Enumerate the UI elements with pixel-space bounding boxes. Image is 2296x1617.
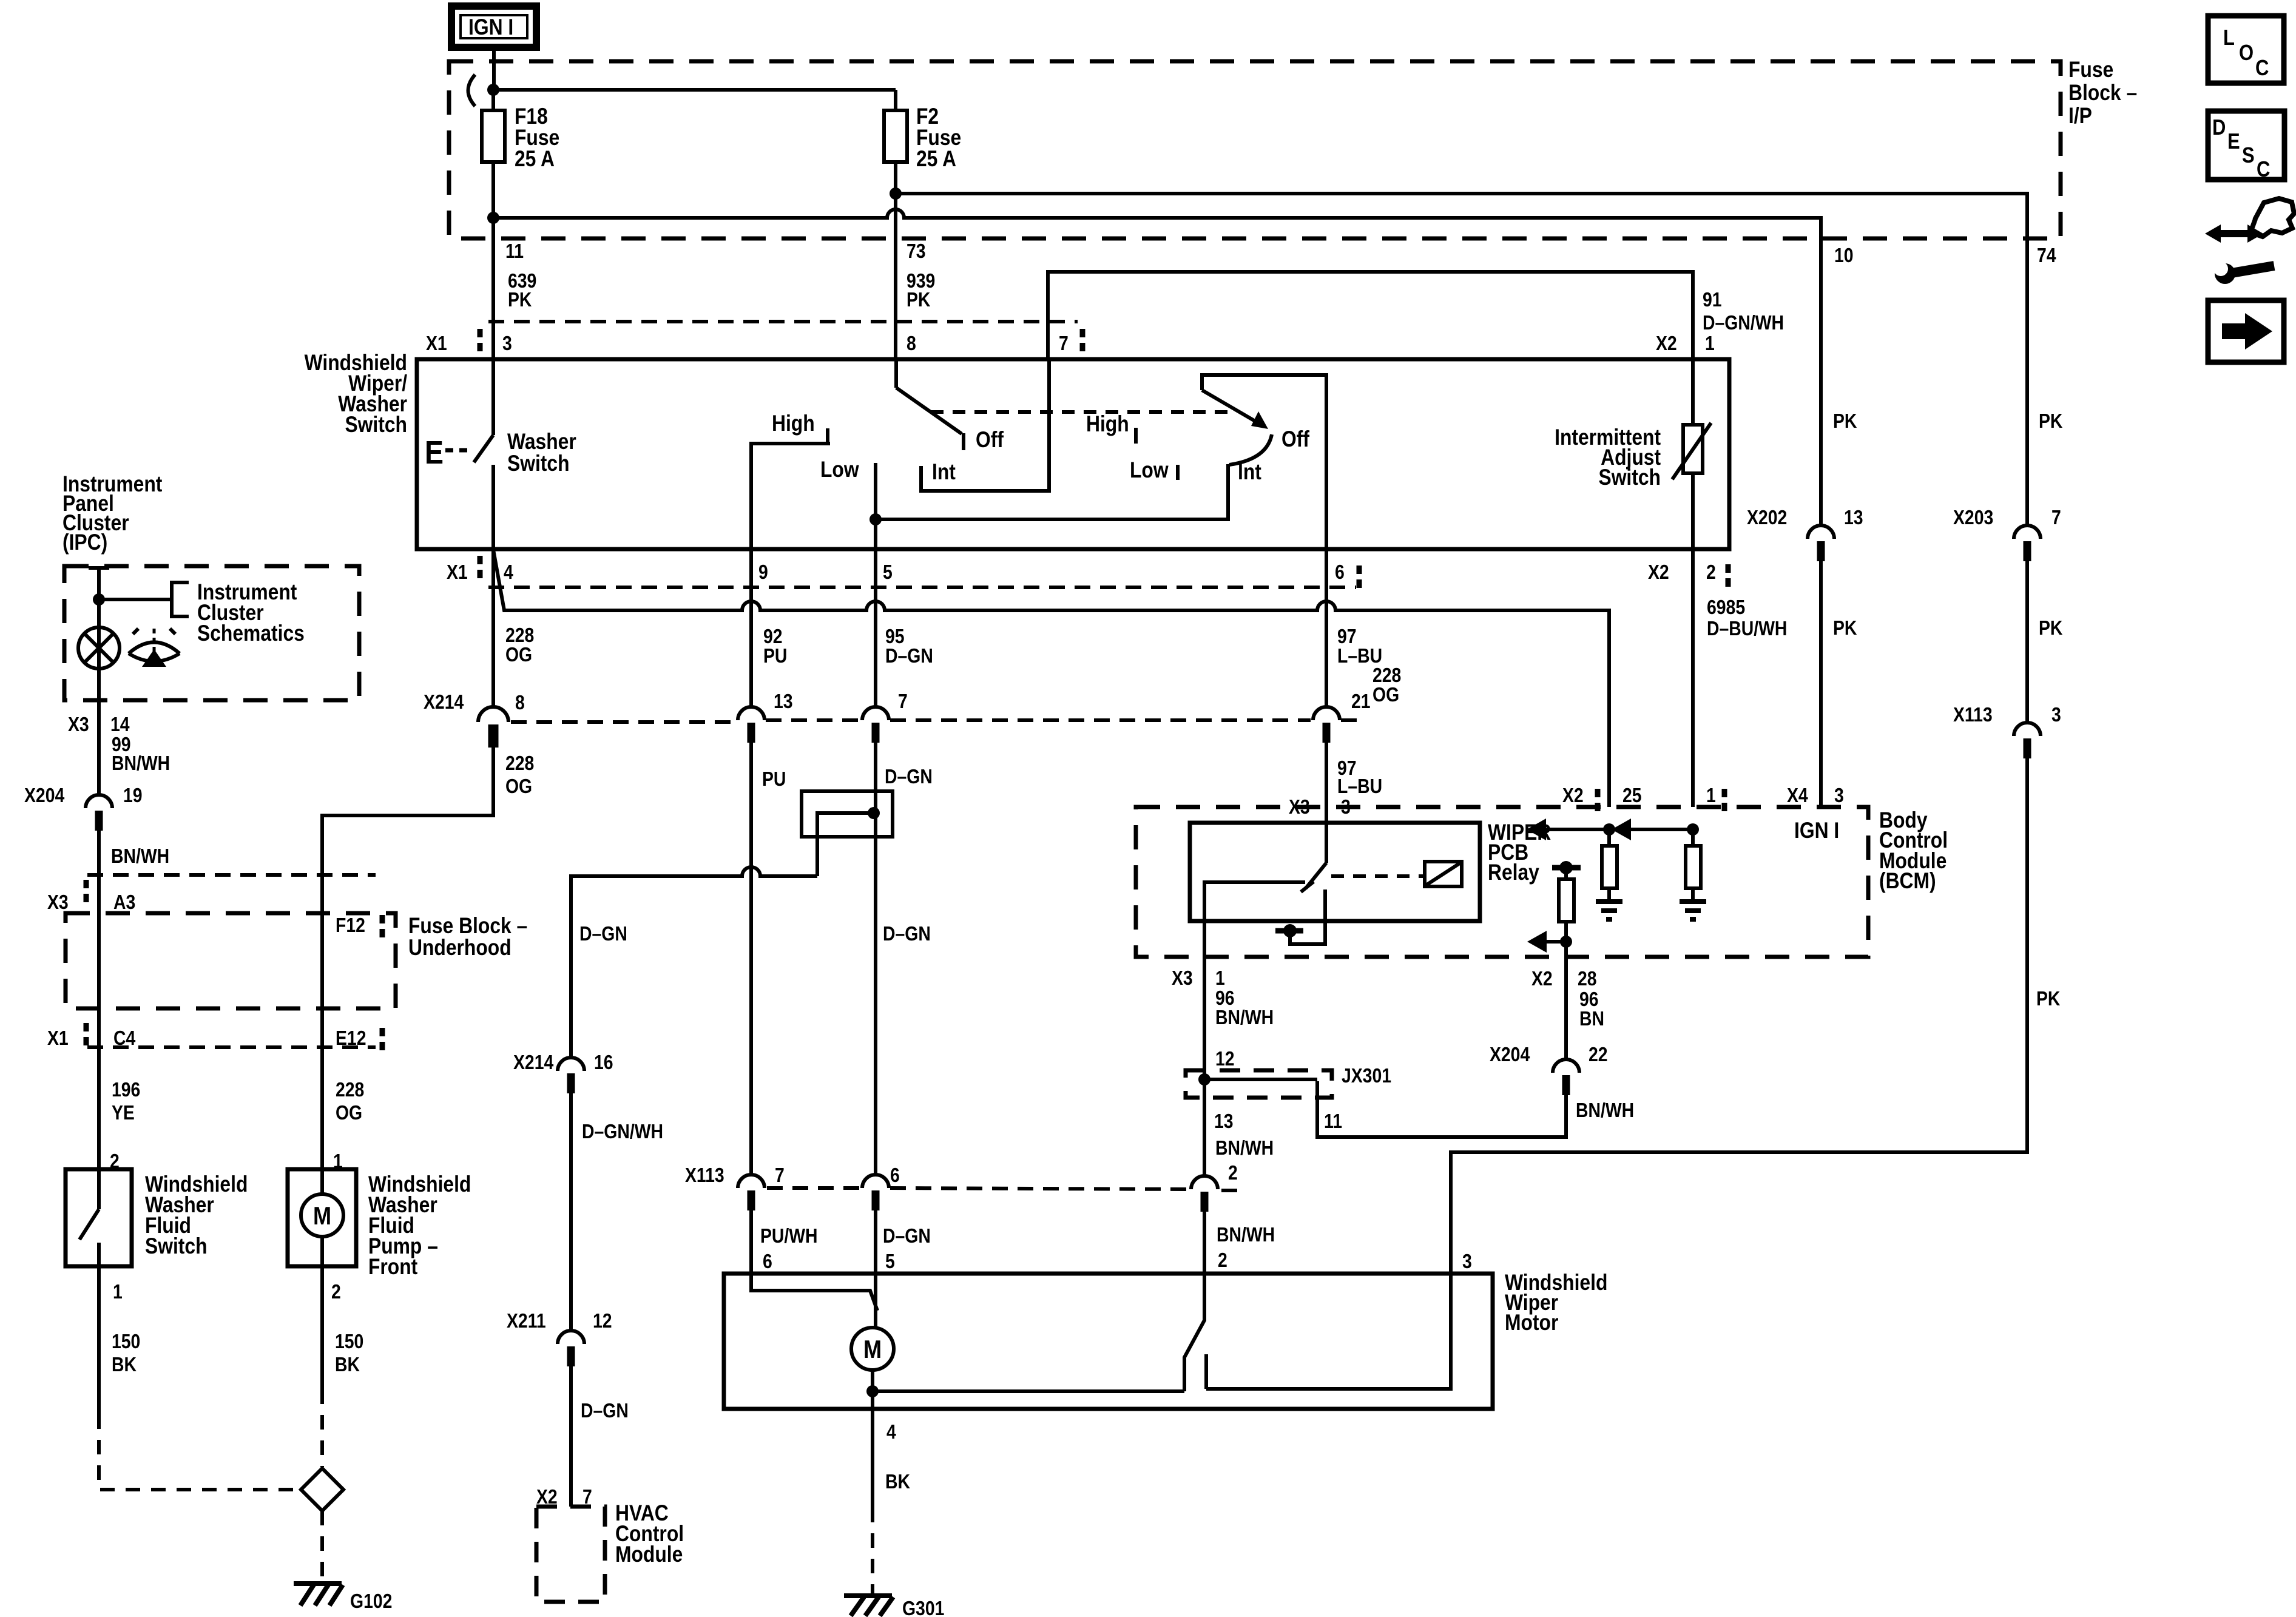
wiper switch 2 blade arrowhead <box>1251 411 1268 429</box>
splice hook symbol at IGN feed <box>468 75 476 106</box>
svg-text:22: 22 <box>1589 1043 1608 1066</box>
svg-text:PK: PK <box>2039 410 2062 433</box>
label Instrument Panel Cluster (IPC) <box>62 472 163 555</box>
svg-text:9: 9 <box>758 561 768 584</box>
svg-text:196: 196 <box>112 1078 140 1101</box>
svg-text:2: 2 <box>1228 1161 1238 1184</box>
label X3 pin 14 <box>68 713 130 736</box>
wire motor pin 5 internal <box>874 1274 877 1328</box>
connector X113 row dashed line <box>767 1188 1245 1190</box>
svg-text:X214: X214 <box>513 1051 553 1074</box>
svg-text:X1: X1 <box>426 332 447 355</box>
instrument cluster schematics bracket <box>172 582 189 616</box>
svg-text:Switch: Switch <box>145 1234 208 1259</box>
label HVAC Control Module <box>615 1501 684 1567</box>
wire circuit 639 PK (F18 to switch pin 3) <box>491 218 495 359</box>
svg-text:2: 2 <box>1706 561 1716 584</box>
svg-text:Block –: Block – <box>2068 81 2137 106</box>
label X3 pin 3 <box>1289 795 1351 819</box>
wire 92 PU pin 9 down <box>749 549 753 707</box>
svg-text:13: 13 <box>774 690 793 713</box>
label F12 with pin dashes <box>336 914 382 939</box>
connector X202-13 tick <box>1817 541 1825 561</box>
svg-text:13: 13 <box>1214 1110 1234 1133</box>
label Windshield Washer Fluid Pump - Front <box>368 1172 471 1280</box>
svg-text:12: 12 <box>593 1309 612 1332</box>
connector X214-21 arc <box>1313 707 1340 720</box>
svg-text:BK: BK <box>335 1353 360 1376</box>
svg-text:Motor: Motor <box>1505 1311 1558 1335</box>
washer fluid switch wire in <box>97 1169 101 1209</box>
wiper switch 1 Off contact tick <box>962 433 965 450</box>
node dot <box>1559 861 1573 874</box>
label Body Control Module (BCM) <box>1879 808 1948 894</box>
svg-text:1: 1 <box>1706 784 1716 807</box>
svg-text:L–BU: L–BU <box>1337 775 1382 798</box>
relay blade tick <box>1301 882 1314 892</box>
label X2 pin 25 row with dashes <box>1562 784 1642 813</box>
label BN/WH / pin 2 (below X113) <box>1217 1223 1275 1272</box>
label Washer Switch <box>507 430 576 476</box>
svg-text:11: 11 <box>505 240 524 263</box>
node junction dot below motor <box>866 1385 879 1397</box>
wire circuit 228 OG from pin 4 (slant and run to BCM X2-25) <box>493 550 1609 807</box>
svg-text:X204: X204 <box>1490 1043 1530 1066</box>
connector X113-2 arc <box>1191 1176 1218 1189</box>
svg-text:Switch: Switch <box>1598 465 1661 490</box>
svg-text:X113: X113 <box>685 1164 724 1187</box>
svg-text:X2: X2 <box>1648 561 1669 584</box>
svg-text:M: M <box>313 1203 331 1230</box>
wiper switch 1 wire from pin 8 <box>894 359 898 388</box>
label 639 PK <box>508 269 536 311</box>
node junction dot at F18/F2 feed <box>487 84 499 96</box>
svg-text:D–GN: D–GN <box>579 922 627 945</box>
label X214 pin 16 <box>513 1051 613 1074</box>
svg-text:228: 228 <box>505 752 534 775</box>
svg-text:PK: PK <box>1833 410 1857 433</box>
connector X1 pin dashes at pin 6 <box>1357 565 1362 590</box>
connector X204-22 tick <box>1562 1075 1570 1095</box>
svg-text:150: 150 <box>112 1330 140 1353</box>
svg-text:BN/WH: BN/WH <box>1215 1136 1274 1160</box>
label Windshield Wiper Motor <box>1505 1271 1607 1335</box>
svg-text:D–GN: D–GN <box>883 1224 931 1247</box>
connector X113-6 arc <box>862 1175 889 1188</box>
wire 150 BK dashed to splice <box>320 1389 324 1467</box>
svg-text:Relay: Relay <box>1488 860 1539 885</box>
svg-text:BN: BN <box>1579 1007 1604 1030</box>
svg-text:7: 7 <box>775 1164 785 1187</box>
connector X1 pin dashes right <box>1080 329 1086 353</box>
wire motor to park switch common <box>871 1370 874 1391</box>
label X4 pin 3 <box>1787 784 1844 807</box>
relay coil diagonal <box>1426 863 1460 885</box>
svg-text:7: 7 <box>2051 506 2061 529</box>
wire D-GN branch to X214-16 (hops over PU wire) <box>571 867 817 1058</box>
svg-text:D–GN: D–GN <box>885 644 933 667</box>
svg-text:19: 19 <box>123 784 143 807</box>
svg-text:X2: X2 <box>1656 332 1677 355</box>
svg-text:6985: 6985 <box>1707 596 1745 619</box>
svg-text:Int: Int <box>932 460 956 485</box>
wire PK X113-3 to motor pin 3 <box>1451 758 2027 1274</box>
svg-text:Switch: Switch <box>507 451 570 476</box>
label Windshield Wiper/Washer Switch <box>305 351 408 437</box>
wiper switch 2 travel arc <box>1229 434 1272 465</box>
wire park switch contact to pin 3 <box>1206 1274 1451 1389</box>
svg-text:X2: X2 <box>1562 784 1584 807</box>
label 97 L-BU (lower) <box>1337 757 1382 798</box>
wire F18 output to pin 10 (across top, hops over F2 wire) <box>493 209 1821 272</box>
BCM dashed box <box>1136 807 1868 957</box>
label Intermittent Adjust Switch <box>1555 425 1661 490</box>
wire 95 D-GN pin 5 down <box>874 549 877 707</box>
Intermittent Adjust Switch rheostat wire <box>1691 362 1695 425</box>
connector X214-8 tick <box>488 724 499 748</box>
svg-text:5: 5 <box>883 561 893 584</box>
washer fluid indicator icon <box>129 629 180 667</box>
svg-text:12: 12 <box>1215 1047 1235 1070</box>
ground symbol at X2-1 <box>1680 902 1706 919</box>
connector X202-13 arc <box>1808 525 1834 539</box>
wire 97 L-BU pin 6 down <box>1325 549 1328 707</box>
BCM internal T node at X2-28 <box>1552 865 1581 871</box>
wiper switch 1 High contact tick <box>826 428 829 444</box>
svg-text:Front: Front <box>368 1255 418 1280</box>
connector X214-8 arc <box>478 707 508 722</box>
label E12 with pin dashes <box>336 1027 382 1052</box>
svg-text:PK: PK <box>2036 987 2060 1010</box>
wire BK dashed to G301 <box>871 1508 874 1593</box>
svg-text:C: C <box>2257 158 2270 182</box>
svg-text:X203: X203 <box>1953 506 1993 529</box>
label 96 BN <box>1579 988 1604 1030</box>
wire BN/WH X204-22 to JX301 <box>1317 1081 1566 1137</box>
svg-text:BN/WH: BN/WH <box>1576 1099 1634 1122</box>
svg-text:PK: PK <box>907 288 930 311</box>
svg-text:X3: X3 <box>68 713 89 736</box>
wire D-GN to motor pin 5 <box>874 1210 877 1274</box>
washer pump box <box>288 1169 356 1266</box>
svg-text:8: 8 <box>907 332 916 355</box>
svg-text:21: 21 <box>1351 690 1371 713</box>
svg-text:(IPC): (IPC) <box>62 530 107 555</box>
wire 150 BK from pump <box>320 1266 324 1389</box>
connector row X1 (pins 4,9,5,6) dashed line <box>488 586 1356 589</box>
wire JX301 bus <box>1204 1078 1317 1081</box>
dashed position line (Int/Off) <box>931 410 1234 414</box>
svg-text:D: D <box>2212 116 2226 140</box>
svg-text:1: 1 <box>113 1280 123 1303</box>
svg-text:PU: PU <box>762 768 786 791</box>
svg-text:X202: X202 <box>1747 506 1787 529</box>
ground G102 <box>294 1584 392 1613</box>
node junction dot on pin 5 wire <box>869 513 882 525</box>
connector X214-13 tick <box>748 723 755 743</box>
IPC feed wire tick at top <box>89 566 109 570</box>
wire to instrument cluster schematics bracket <box>99 598 172 601</box>
washer pump wire out <box>320 1237 324 1266</box>
svg-text:X3: X3 <box>1172 967 1193 990</box>
connector X3 pin dashes <box>84 880 89 904</box>
svg-text:G301: G301 <box>902 1597 944 1617</box>
label X2 pin 2 row <box>1648 561 1728 589</box>
wire 228 OG X214-8 to fuse block underhood F12 <box>322 748 493 1169</box>
connector row X1 (pins 3,8,7) dashed line <box>488 320 1078 323</box>
wire circuit 91 D-GN/WH (switch pin 7 loop to X2-1) <box>1048 272 1693 362</box>
connector X204-22 arc <box>1553 1059 1579 1073</box>
svg-text:OG: OG <box>1373 683 1399 706</box>
rheostat arrow <box>1672 423 1711 479</box>
wire IPC lamp feed <box>97 566 101 700</box>
BCM output arrow at X2-28 <box>1527 931 1572 953</box>
connector X204-19 arc <box>86 795 112 808</box>
washer pump motor circle <box>301 1194 343 1237</box>
svg-text:PU/WH: PU/WH <box>760 1224 818 1247</box>
wire circuit 99 BN/WH <box>97 700 101 795</box>
svg-text:3: 3 <box>1834 784 1844 807</box>
svg-text:2: 2 <box>1218 1249 1227 1272</box>
svg-text:BN/WH: BN/WH <box>1215 1006 1274 1029</box>
svg-text:PK: PK <box>2039 616 2062 640</box>
label 228 OG (below pin 4) <box>505 624 534 666</box>
label 150 BK (switch) <box>112 1330 140 1376</box>
connector X214-16 tick <box>567 1073 575 1093</box>
park switch contact tick <box>1204 1354 1208 1389</box>
svg-text:X2: X2 <box>1531 967 1553 990</box>
connector X113-7 tick <box>748 1190 755 1210</box>
connector X211-12 tick <box>567 1346 575 1366</box>
node junction dot on D-GN wire <box>868 807 880 819</box>
wire BN/WH to washer fluid switch <box>97 831 101 1169</box>
label 99 BN/WH <box>112 733 170 775</box>
svg-text:13: 13 <box>1844 506 1863 529</box>
HVAC control module dashed box <box>536 1507 605 1602</box>
svg-text:7: 7 <box>1059 332 1069 355</box>
label 228 OG (at BCM) <box>1373 664 1401 706</box>
node junction dot at F18 output <box>487 212 499 224</box>
wire F2 output to pin 74 (across top) <box>896 194 2027 272</box>
svg-text:PK: PK <box>1833 616 1857 640</box>
node junction dot in JX301 <box>1198 1073 1210 1085</box>
svg-text:D–GN: D–GN <box>885 765 933 788</box>
connector X214-13 arc <box>738 707 765 720</box>
svg-text:1: 1 <box>1215 967 1225 990</box>
label 92 PU <box>763 625 787 667</box>
label 228 OG (below X214-8) <box>505 752 534 798</box>
washer switch blade <box>474 435 493 462</box>
label X113 pin 3 <box>1953 703 2061 726</box>
connector X1 pin dashes (C4) <box>84 1023 89 1047</box>
label WIPER PCB Relay <box>1488 820 1551 885</box>
wire switch 2 top link to pin 6 <box>1202 375 1326 549</box>
svg-text:10: 10 <box>1834 244 1854 267</box>
node dot on T <box>1283 924 1297 937</box>
fuse F18 25A <box>482 90 559 218</box>
svg-text:91: 91 <box>1703 288 1722 311</box>
svg-text:PK: PK <box>508 288 532 311</box>
svg-text:BK: BK <box>112 1353 137 1376</box>
svg-text:IGN I: IGN I <box>468 15 513 40</box>
svg-text:D–GN: D–GN <box>581 1399 629 1422</box>
wire 97 L-BU to relay (X3-3) <box>1325 743 1328 863</box>
wire JX301-13 down to motor pin 2 <box>1203 1079 1206 1175</box>
svg-text:M: M <box>863 1336 882 1364</box>
wire 150 BK from fluid switch <box>97 1266 101 1414</box>
fuse F2 25A <box>884 90 961 194</box>
svg-text:X1: X1 <box>447 561 468 584</box>
switch box outline <box>417 359 1729 549</box>
wire PU to X113-7 <box>749 743 753 1175</box>
label pin 1 row with dashes <box>1706 784 1724 813</box>
wire switch 2 Int contact to pin 5 <box>876 464 1228 519</box>
wiper motor box <box>724 1274 1493 1409</box>
svg-text:A3: A3 <box>113 891 135 914</box>
svg-text:8: 8 <box>515 691 525 714</box>
svg-text:OG: OG <box>505 643 532 666</box>
WIPER PCB Relay box <box>1190 823 1480 921</box>
BCM internal T node <box>1275 928 1303 934</box>
connector X214-16 arc <box>558 1058 584 1071</box>
svg-text:Schematics: Schematics <box>197 621 305 646</box>
svg-text:X3: X3 <box>47 891 69 914</box>
wire Int contact to pin 7 <box>921 359 1049 491</box>
connector X203-7 arc <box>2014 525 2041 539</box>
svg-text:2: 2 <box>331 1280 341 1303</box>
wiper switch 2 blade with arrow <box>1202 390 1260 424</box>
label D-GN / pin 5 <box>883 1224 931 1273</box>
label X2 pin 7 (HVAC) <box>536 1485 592 1508</box>
svg-text:Underhood: Underhood <box>408 936 512 960</box>
svg-text:6: 6 <box>763 1250 772 1273</box>
svg-text:X4: X4 <box>1787 784 1808 807</box>
washer fluid switch lower contact <box>97 1243 101 1266</box>
ground G301 <box>844 1596 944 1617</box>
svg-text:Off: Off <box>976 428 1004 453</box>
wire pin 5 Low contact <box>874 463 877 549</box>
node junction dot in IPC <box>93 593 105 606</box>
svg-text:D–GN/WH: D–GN/WH <box>1703 311 1784 334</box>
label Fuse Block - I/P <box>2068 58 2137 129</box>
wiper switch 2 High contact tick <box>1134 428 1138 444</box>
label X203 pin 7 <box>1953 506 2061 529</box>
connector X113-6 tick <box>872 1190 880 1210</box>
svg-text:4: 4 <box>504 561 513 584</box>
wire 150 BK dashed to splice <box>99 1414 301 1490</box>
svg-text:O: O <box>2239 41 2254 66</box>
label 6985 D-BU/WH <box>1707 596 1787 640</box>
rheostat body <box>1683 425 1703 473</box>
svg-text:I/P: I/P <box>2068 104 2092 129</box>
relay NC contact path to BCM internal <box>1290 890 1325 944</box>
washer fluid switch blade <box>79 1209 99 1240</box>
wire 96 BN/WH X3-1 to JX301 <box>1203 959 1206 1079</box>
BCM input arrow at X2-25 <box>1527 819 1615 840</box>
label X202 pin 13 <box>1747 506 1863 529</box>
svg-text:Switch: Switch <box>345 413 407 437</box>
node junction dot at F2 output <box>890 187 902 200</box>
svg-text:C: C <box>2255 56 2269 81</box>
connector X203-7 tick <box>2024 541 2031 561</box>
svg-text:S: S <box>2242 144 2255 168</box>
connector X211-12 arc <box>558 1331 584 1344</box>
label X3 / A3 <box>47 891 135 914</box>
label X204 pin 19 <box>24 784 143 807</box>
svg-text:(BCM): (BCM) <box>1879 869 1936 894</box>
relay common contact wire to X3-1 <box>1204 882 1305 959</box>
icon DESC box <box>2208 111 2284 182</box>
splice diamond <box>301 1468 343 1511</box>
rheostat lower wire <box>1691 473 1695 549</box>
BCM pull resistor at X2-1 <box>1686 829 1701 902</box>
connector X1 pin dashes left <box>478 556 483 580</box>
svg-text:OG: OG <box>505 775 532 798</box>
svg-text:Off: Off <box>1281 427 1309 452</box>
svg-text:16: 16 <box>594 1051 613 1074</box>
wire BN/WH to motor pin 2 <box>1203 1212 1206 1274</box>
svg-text:OG: OG <box>336 1101 362 1124</box>
label BN/WH / pin 2 (above X113) <box>1215 1136 1274 1184</box>
svg-text:L–BU: L–BU <box>1337 644 1382 667</box>
svg-text:6: 6 <box>890 1164 900 1187</box>
Fuse Block Underhood dashed box <box>66 913 396 1008</box>
svg-text:1: 1 <box>1705 332 1715 355</box>
svg-text:X3: X3 <box>1289 795 1310 819</box>
icon arrow box <box>2208 300 2284 362</box>
wire D-GN to HVAC <box>569 1366 573 1507</box>
svg-text:73: 73 <box>907 240 926 263</box>
svg-text:Fuse Block –: Fuse Block – <box>408 914 527 939</box>
svg-text:3: 3 <box>1462 1250 1472 1273</box>
connector X214-21 tick <box>1323 723 1331 743</box>
connector X113-7 arc <box>738 1175 765 1188</box>
wiper motor circle <box>851 1328 894 1370</box>
svg-text:F12: F12 <box>336 914 365 937</box>
svg-text:X214: X214 <box>424 690 464 714</box>
svg-text:6: 6 <box>1335 561 1345 584</box>
connector X214-7 tick <box>872 723 880 743</box>
junction block JX301 dashed box <box>1186 1070 1332 1098</box>
wire motor pin 6 internal <box>751 1274 877 1311</box>
node IGN I (power feed box) <box>451 6 536 47</box>
park switch blade <box>1184 1274 1204 1391</box>
washer switch wire from pin 3 <box>491 359 495 435</box>
svg-text:14: 14 <box>110 713 130 736</box>
wire PK X203 to X113-3 <box>2025 561 2029 723</box>
relay blade <box>1306 863 1326 888</box>
ground symbol at X2-25 <box>1596 902 1622 919</box>
label X211 pin 12 <box>507 1309 612 1332</box>
wire 6985 D-BU/WH rheostat to BCM X2-1 <box>1691 549 1695 807</box>
connector row X3 (A3) dashed line <box>87 873 376 877</box>
label X2 pin 28 <box>1531 967 1597 990</box>
label X113 pin 7 <box>685 1164 785 1187</box>
wire circuit 939 PK (F2 to switch pin 8) <box>894 194 897 359</box>
wire motor ground pin 4 <box>871 1391 874 1409</box>
wiper switch 2 Low contact tick <box>1176 465 1180 480</box>
svg-text:X211: X211 <box>507 1309 546 1332</box>
svg-text:BN/WH: BN/WH <box>1217 1223 1275 1246</box>
label X204 pin 22 <box>1490 1043 1608 1066</box>
svg-text:G102: G102 <box>350 1590 392 1613</box>
svg-text:28: 28 <box>1578 967 1597 990</box>
wire dashed splice to G102 <box>320 1511 324 1581</box>
svg-text:PU: PU <box>763 644 787 667</box>
svg-text:3: 3 <box>1341 795 1351 819</box>
connector X214 row dashed line <box>511 720 1364 722</box>
svg-text:3: 3 <box>2051 703 2061 726</box>
